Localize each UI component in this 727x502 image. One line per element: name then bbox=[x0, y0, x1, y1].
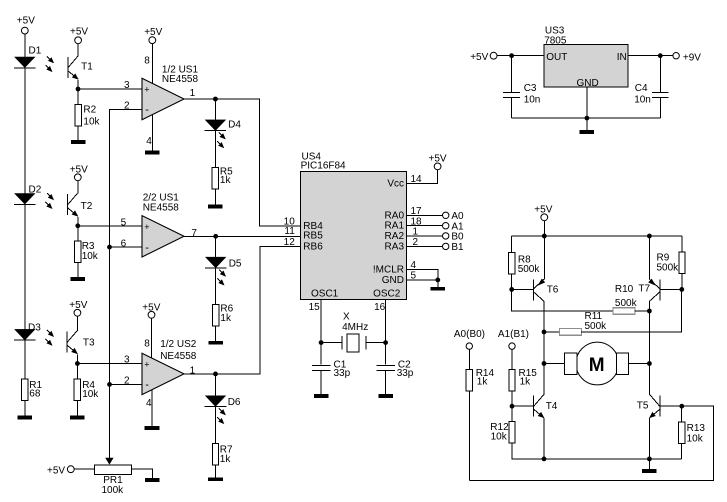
svg-text:4MHz: 4MHz bbox=[342, 322, 368, 333]
resistor R9 500k bbox=[657, 252, 686, 274]
wire C3 to rail bbox=[511, 98, 513, 118]
wire motor right bbox=[629, 363, 650, 365]
svg-text:6: 6 bbox=[121, 239, 127, 250]
svg-text:3: 3 bbox=[124, 80, 130, 91]
wire node to R2 bbox=[77, 89, 79, 105]
ground (R3) bbox=[71, 277, 86, 281]
svg-text:T2: T2 bbox=[81, 201, 93, 212]
wire node to D5 bbox=[215, 236, 217, 257]
node +5V rail bbox=[542, 234, 547, 239]
wire R3 to ground bbox=[77, 263, 79, 277]
resistor R12 10k bbox=[490, 422, 515, 444]
svg-text:10k: 10k bbox=[82, 389, 99, 400]
+5V terminal (op-amp US2) bbox=[142, 303, 160, 319]
resistor R15 1k bbox=[509, 368, 537, 391]
svg-text:GND: GND bbox=[382, 275, 404, 286]
transistor T3 bbox=[67, 330, 95, 354]
wire T5 emitter to inner rail bbox=[648, 418, 650, 459]
transistor T4 bbox=[534, 394, 558, 418]
LED D3 bbox=[14, 322, 41, 340]
wire node to ground bbox=[648, 459, 650, 469]
svg-text:33p: 33p bbox=[334, 368, 351, 379]
wire node to op3 pin3 bbox=[77, 363, 142, 365]
svg-text:Vcc: Vcc bbox=[387, 178, 404, 189]
node T4 base bbox=[510, 404, 515, 409]
resistor R6 1k bbox=[213, 304, 234, 326]
svg-text:5: 5 bbox=[411, 270, 417, 281]
svg-text:1: 1 bbox=[190, 88, 196, 99]
wire crystal to OSC2 bbox=[366, 342, 386, 344]
wire T6 emitter bbox=[543, 236, 545, 279]
wire node to ground bbox=[586, 118, 588, 130]
wire OSC2 pin 16 bbox=[385, 300, 387, 343]
node T7 base bbox=[679, 287, 684, 292]
wire C2 to ground bbox=[385, 371, 387, 394]
svg-text:D1: D1 bbox=[29, 46, 42, 57]
svg-text:M: M bbox=[589, 355, 605, 376]
op-amp U1a 1/2 US1 NE4558 bbox=[142, 65, 198, 120]
wire T2 emitter to node bbox=[77, 217, 79, 226]
svg-text:+5V: +5V bbox=[534, 205, 552, 216]
svg-text:2: 2 bbox=[124, 101, 130, 112]
svg-text:2: 2 bbox=[413, 237, 419, 248]
wire R6 to ground bbox=[215, 326, 217, 341]
wire node to R3 bbox=[77, 226, 79, 241]
wire T4 emitter to inner rail bbox=[543, 418, 545, 459]
svg-text:1k: 1k bbox=[220, 313, 232, 324]
svg-text:8: 8 bbox=[144, 339, 150, 350]
wire bottom rail 7805 bbox=[512, 117, 661, 119]
svg-text:NE4558: NE4558 bbox=[160, 351, 197, 362]
svg-text:1k: 1k bbox=[220, 175, 232, 186]
svg-text:+5V: +5V bbox=[142, 303, 160, 314]
wire T5 base bbox=[660, 405, 682, 407]
svg-text:10n: 10n bbox=[634, 94, 651, 105]
light arrows D3 bbox=[46, 330, 54, 345]
terminal A1(B1) bbox=[498, 329, 529, 349]
node GND rail bbox=[585, 116, 590, 121]
wire node to R4 bbox=[76, 364, 78, 379]
capacitor C4 10n bbox=[634, 56, 669, 106]
svg-text:T4: T4 bbox=[546, 401, 558, 412]
node motor right bbox=[647, 361, 652, 366]
resistor R3 10k bbox=[75, 241, 99, 263]
ground (C1) bbox=[314, 394, 329, 398]
node T5 emitter bbox=[647, 457, 652, 462]
svg-text:11: 11 bbox=[284, 226, 295, 237]
resistor R2 10k bbox=[75, 104, 101, 127]
+5V terminal (T2) bbox=[70, 164, 88, 180]
node op3 output bbox=[213, 372, 218, 377]
svg-text:+5V: +5V bbox=[429, 154, 447, 165]
wire T1 emitter to node bbox=[77, 80, 79, 89]
ground (R6) bbox=[208, 341, 223, 345]
svg-text:1k: 1k bbox=[220, 454, 232, 465]
svg-text:4: 4 bbox=[411, 260, 417, 271]
svg-text:+: + bbox=[144, 85, 149, 95]
svg-text:PIC16F84: PIC16F84 bbox=[301, 161, 346, 172]
+5V terminal (op-amp US1) bbox=[144, 27, 162, 44]
node op1 output bbox=[213, 97, 218, 102]
svg-text:17: 17 bbox=[411, 206, 423, 217]
ground (7805) bbox=[580, 130, 595, 134]
wire T3 emitter to node bbox=[76, 354, 78, 363]
node T4 emitter bbox=[542, 457, 547, 462]
svg-text:+5V: +5V bbox=[47, 466, 65, 477]
wire R2 to ground bbox=[77, 126, 79, 140]
resistor R10 500k bbox=[613, 284, 638, 314]
svg-text:1k: 1k bbox=[477, 376, 489, 387]
wire A0(B0) to R14 bbox=[468, 349, 470, 369]
svg-text:1/2 US2: 1/2 US2 bbox=[160, 339, 197, 350]
svg-text:A0(B0): A0(B0) bbox=[454, 329, 485, 340]
ground (R1) bbox=[18, 416, 33, 420]
LED D6 bbox=[205, 396, 241, 408]
node T7 emitter rail bbox=[647, 234, 652, 239]
wire PR1 wiper riser to op inverting inputs bbox=[110, 109, 143, 458]
wire RA0 pin 17 bbox=[407, 214, 443, 216]
transistor T5 bbox=[649, 394, 660, 418]
wire R14 to outer rail bbox=[468, 391, 470, 480]
node C3 tap bbox=[509, 53, 514, 58]
wire T7 collector down bbox=[648, 301, 650, 395]
wire T2 collector bbox=[77, 181, 79, 194]
svg-text:OSC2: OSC2 bbox=[373, 289, 401, 300]
node R11 tap bbox=[542, 330, 547, 335]
svg-text:D6: D6 bbox=[228, 397, 241, 408]
wire rail to R9 bbox=[681, 236, 683, 252]
svg-text:+: + bbox=[144, 222, 149, 232]
wire node to op1 pin3 bbox=[78, 88, 142, 90]
wire R5 to ground bbox=[214, 189, 216, 205]
wire pin 4 op1 to ground bbox=[151, 115, 153, 151]
svg-text:10k: 10k bbox=[82, 251, 99, 262]
ground (op1) bbox=[145, 151, 160, 155]
svg-text:RA2: RA2 bbox=[385, 231, 405, 242]
wire node to op2 pin5 bbox=[78, 225, 142, 227]
svg-text:GND: GND bbox=[577, 78, 599, 89]
svg-text:500k: 500k bbox=[615, 298, 638, 309]
node riser to op2 pin6 bbox=[107, 245, 112, 250]
svg-text:+9V: +9V bbox=[683, 52, 701, 63]
light arrows D4 bbox=[217, 132, 225, 147]
wire R1 to ground bbox=[24, 400, 26, 415]
transistor T2 bbox=[68, 193, 93, 217]
svg-text:+5V: +5V bbox=[70, 164, 88, 175]
svg-text:R10: R10 bbox=[615, 284, 634, 295]
svg-text:R11: R11 bbox=[585, 311, 603, 322]
ground (PR1) bbox=[145, 478, 160, 482]
svg-text:5: 5 bbox=[121, 217, 127, 228]
wire R11 left bbox=[544, 331, 559, 333]
wire T3 collector bbox=[76, 316, 78, 331]
wire node to T6 base bbox=[512, 288, 534, 290]
wire D5 to R6 bbox=[215, 268, 217, 304]
wire motor left bbox=[544, 363, 565, 365]
transistor T7 bbox=[648, 279, 660, 302]
svg-text:D5: D5 bbox=[229, 258, 242, 269]
svg-text:D3: D3 bbox=[28, 322, 41, 333]
+5V terminal (7805 OUT) bbox=[470, 52, 497, 63]
svg-text:T1: T1 bbox=[81, 62, 93, 73]
svg-text:T7: T7 bbox=[638, 284, 650, 295]
svg-text:-: - bbox=[145, 242, 149, 254]
svg-text:10k: 10k bbox=[687, 434, 704, 445]
wire outer bottom rail to T5 base bbox=[469, 406, 713, 480]
terminal A0 bbox=[443, 211, 465, 222]
wire RA2 pin 1 bbox=[407, 235, 443, 237]
terminal A0(B0) bbox=[454, 329, 485, 349]
LED D1 bbox=[14, 46, 42, 68]
wire node to R12 bbox=[511, 406, 513, 422]
ground (R7) bbox=[208, 477, 223, 481]
svg-text:NE4558: NE4558 bbox=[143, 202, 180, 213]
ground (R2) bbox=[71, 140, 86, 144]
svg-text:500k: 500k bbox=[585, 321, 608, 332]
op-amp U1b 2/2 US1 NE4558 bbox=[142, 192, 184, 257]
svg-text:500k: 500k bbox=[518, 264, 541, 275]
svg-text:T5: T5 bbox=[637, 400, 649, 411]
svg-text:!MCLR: !MCLR bbox=[373, 264, 404, 275]
+5V terminal (PR1) bbox=[47, 466, 74, 477]
svg-text:100k: 100k bbox=[102, 485, 125, 496]
ground (op3) bbox=[145, 426, 160, 430]
wire T7 emitter bbox=[648, 236, 650, 279]
svg-text:8: 8 bbox=[144, 56, 150, 67]
ground (C2) bbox=[378, 394, 393, 398]
capacitor C2 33p bbox=[376, 343, 414, 379]
wire RA1 pin 18 bbox=[407, 225, 443, 227]
wire GND pin 5 bbox=[407, 279, 438, 281]
light arrows D2 bbox=[46, 193, 54, 208]
svg-text:10k: 10k bbox=[83, 117, 100, 128]
wire R4 to ground bbox=[76, 400, 78, 415]
wire IN to +9V bbox=[628, 55, 673, 57]
wire C1 to ground bbox=[320, 371, 322, 394]
node op2 output bbox=[213, 234, 218, 239]
light arrows D1 bbox=[46, 56, 54, 71]
op-amp U2a 1/2 US2 NE4558 bbox=[142, 339, 197, 394]
wire node to D6 bbox=[215, 374, 217, 396]
svg-text:68: 68 bbox=[29, 388, 41, 399]
wire node to T7 base bbox=[660, 288, 682, 290]
svg-text:RB5: RB5 bbox=[303, 231, 323, 242]
wire R8 to base node bbox=[511, 274, 513, 289]
light arrows D6 bbox=[217, 408, 225, 423]
svg-text:3: 3 bbox=[124, 355, 130, 366]
terminal B1 bbox=[443, 242, 465, 253]
wire +5V to D1 bbox=[24, 34, 26, 57]
svg-text:16: 16 bbox=[374, 302, 386, 313]
wire PR1 right to ground bbox=[132, 469, 153, 478]
svg-text:NE4558: NE4558 bbox=[162, 74, 199, 85]
svg-text:10n: 10n bbox=[524, 94, 541, 105]
svg-text:C4: C4 bbox=[635, 83, 648, 94]
svg-text:RA0: RA0 bbox=[385, 210, 405, 221]
svg-text:D4: D4 bbox=[228, 120, 241, 131]
svg-text:IN: IN bbox=[617, 52, 627, 63]
LED D5 bbox=[205, 257, 242, 269]
wire D2 to D3 bbox=[24, 205, 26, 330]
svg-text:A1(B1): A1(B1) bbox=[498, 329, 529, 340]
wire R15 to base node bbox=[511, 391, 513, 406]
svg-text:1: 1 bbox=[413, 227, 419, 238]
wire rail to R8 bbox=[511, 236, 513, 253]
svg-text:33p: 33p bbox=[397, 368, 414, 379]
node C4 tap bbox=[658, 53, 663, 58]
svg-text:+5V: +5V bbox=[470, 52, 488, 63]
svg-text:14: 14 bbox=[411, 174, 423, 185]
wire pin 8 op3 bbox=[151, 318, 153, 359]
resistor R1 68 bbox=[22, 379, 43, 401]
node R10 T7 collector bbox=[647, 309, 652, 314]
wire R13 to inner rail bbox=[681, 443, 683, 459]
svg-text:12: 12 bbox=[284, 237, 296, 248]
+5V terminal (T3) bbox=[69, 300, 87, 316]
ground (H-bridge) bbox=[642, 469, 657, 473]
svg-text:C3: C3 bbox=[524, 83, 537, 94]
svg-text:T3: T3 bbox=[83, 337, 95, 348]
wire op3 output to RB6 bbox=[184, 246, 301, 374]
transistor T6 bbox=[534, 279, 559, 302]
wire node to T4 base bbox=[512, 405, 534, 407]
svg-text:10k: 10k bbox=[491, 432, 508, 443]
LED D2 bbox=[14, 184, 42, 204]
wire !MCLR pin 4 to GND pin 5 bbox=[407, 269, 438, 280]
+9V terminal bbox=[673, 52, 701, 63]
wire node to R13 bbox=[681, 406, 683, 422]
svg-text:+5V: +5V bbox=[69, 300, 87, 311]
node riser to op3 pin2 bbox=[107, 382, 112, 387]
capacitor C1 33p bbox=[312, 343, 351, 379]
wire R7 to ground bbox=[215, 465, 217, 477]
svg-text:R2: R2 bbox=[83, 104, 96, 115]
svg-text:4: 4 bbox=[146, 398, 152, 409]
svg-text:+5V: +5V bbox=[17, 16, 35, 27]
wire A1(B1) to R15 bbox=[511, 349, 513, 369]
+5V terminal (LED chain) bbox=[17, 16, 35, 34]
node T2 emitter bbox=[75, 223, 80, 228]
wire R11 to T7 base node bbox=[581, 289, 682, 332]
wire riser to op2 pin6 bbox=[110, 246, 143, 248]
svg-text:2: 2 bbox=[124, 376, 130, 387]
wire +5V to PR1 bbox=[74, 468, 95, 470]
svg-text:RA3: RA3 bbox=[385, 241, 405, 252]
wire pin 8 op1 bbox=[151, 43, 153, 84]
svg-text:500k: 500k bbox=[657, 263, 680, 274]
microcontroller US4 PIC16F84 bbox=[301, 152, 407, 300]
svg-text:T6: T6 bbox=[547, 285, 559, 296]
svg-text:-: - bbox=[145, 379, 149, 391]
svg-text:OSC1: OSC1 bbox=[311, 289, 339, 300]
svg-text:7805: 7805 bbox=[544, 36, 567, 47]
terminal A1 bbox=[443, 221, 465, 232]
wire R10 to T7 collector column bbox=[634, 310, 649, 312]
node MCLR-GND bbox=[435, 278, 440, 283]
svg-text:15: 15 bbox=[309, 302, 321, 313]
resistor R11 500k bbox=[559, 311, 607, 335]
wire Vcc pin 14 bbox=[407, 170, 438, 184]
svg-text:+5V: +5V bbox=[70, 27, 88, 38]
motor M bbox=[565, 342, 629, 385]
wire op1 output to RB4 bbox=[184, 99, 301, 226]
node motor left bbox=[542, 361, 547, 366]
wire OSC1 pin 15 bbox=[320, 300, 322, 343]
svg-text:A0: A0 bbox=[451, 211, 464, 222]
wire D6 to R7 bbox=[215, 407, 217, 444]
wire node to D4 bbox=[214, 99, 216, 120]
node T6 base bbox=[509, 287, 514, 292]
svg-text:+: + bbox=[144, 360, 149, 370]
wire op2 output to RB5 bbox=[184, 235, 301, 237]
capacitor C3 10n bbox=[503, 56, 540, 106]
resistor R5 1k bbox=[212, 166, 233, 188]
node OSC1 bbox=[319, 340, 324, 345]
wire +5V to OUT bbox=[497, 55, 544, 57]
svg-text:OUT: OUT bbox=[546, 52, 567, 63]
resistor R4 10k bbox=[74, 379, 99, 401]
svg-text:7: 7 bbox=[191, 228, 197, 239]
resistor R8 500k bbox=[509, 253, 541, 275]
+5V terminal (T1) bbox=[70, 27, 88, 44]
svg-text:RB6: RB6 bbox=[303, 241, 323, 252]
wire GND pin down bbox=[586, 87, 588, 118]
svg-text:4: 4 bbox=[146, 136, 152, 147]
wire OSC1 to crystal bbox=[321, 342, 342, 344]
wire node to ground bbox=[437, 280, 439, 287]
wire riser to op3 pin2 bbox=[110, 383, 143, 385]
crystal X 4MHz bbox=[342, 312, 368, 353]
wire C4 to rail bbox=[659, 98, 661, 118]
transistor T1 bbox=[68, 56, 93, 80]
potentiometer PR1 100k bbox=[95, 458, 132, 496]
node OSC2 bbox=[383, 340, 388, 345]
svg-text:1k: 1k bbox=[520, 376, 532, 387]
svg-text:D2: D2 bbox=[29, 184, 42, 195]
wire D4 to R5 bbox=[214, 131, 216, 167]
resistor R13 10k bbox=[679, 422, 706, 445]
svg-text:B1: B1 bbox=[451, 242, 464, 253]
+5V terminal (PIC Vcc) bbox=[429, 154, 447, 170]
svg-text:1: 1 bbox=[190, 366, 196, 377]
svg-text:-: - bbox=[145, 104, 149, 116]
LED D4 bbox=[205, 120, 242, 131]
wire R9 to base node bbox=[681, 274, 683, 290]
wire D3 to R1 bbox=[24, 340, 26, 378]
wire T6 collector down bbox=[543, 301, 545, 395]
voltage regulator US3 7805 bbox=[544, 26, 628, 90]
terminal B0 bbox=[443, 232, 465, 243]
wire +5V to top rail bbox=[543, 221, 545, 237]
resistor R7 1k bbox=[212, 444, 233, 466]
wire top rail bbox=[512, 235, 682, 237]
wire T1 collector bbox=[77, 44, 79, 57]
wire D1 to D2 bbox=[24, 68, 26, 194]
ground (R4) bbox=[70, 416, 85, 420]
wire R12 to inner rail bbox=[512, 443, 682, 459]
wire RA3 pin 2 bbox=[407, 245, 443, 247]
svg-text:B0: B0 bbox=[451, 232, 464, 243]
node T5 base bbox=[679, 404, 684, 409]
wire node down to R10 row bbox=[512, 289, 613, 311]
resistor R14 1k bbox=[466, 368, 494, 391]
node T3 emitter bbox=[75, 361, 80, 366]
wire pin 4 op3 to ground bbox=[151, 390, 153, 426]
node T1 emitter bbox=[76, 87, 81, 92]
ground (PIC GND) bbox=[431, 287, 446, 291]
ground (R5) bbox=[208, 205, 223, 209]
light arrows D5 bbox=[218, 270, 226, 285]
